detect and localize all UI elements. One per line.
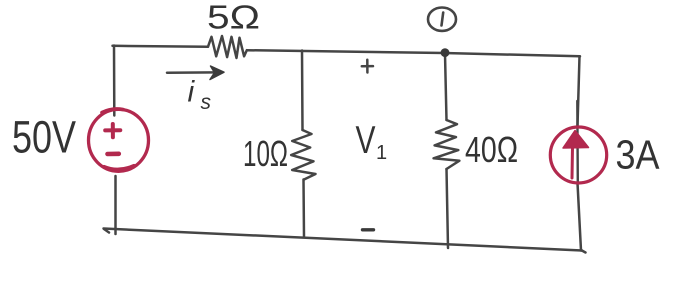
svg-text:V: V — [356, 119, 376, 162]
svg-text:3A: 3A — [616, 132, 661, 178]
svg-text:5Ω: 5Ω — [207, 0, 260, 36]
svg-text:s: s — [201, 91, 212, 114]
svg-text:50V: 50V — [12, 112, 76, 163]
svg-text:1: 1 — [376, 142, 387, 164]
svg-text:40Ω: 40Ω — [465, 129, 518, 170]
svg-text:10Ω: 10Ω — [243, 133, 288, 174]
